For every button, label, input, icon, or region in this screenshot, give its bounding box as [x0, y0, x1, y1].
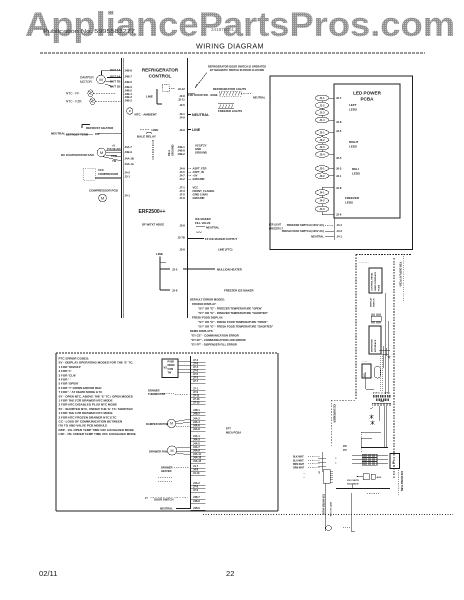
user interface board U3 — [369, 268, 382, 293]
svg-text:BY MAGNETIC SWITCH IN DOOR CLO: BY MAGNETIC SWITCH IN DOOR CLOSURE — [210, 68, 265, 72]
svg-text:DRAWER FAN: DRAWER FAN — [149, 450, 167, 454]
svg-text:J4-2: J4-2 — [319, 199, 325, 203]
svg-text:J7-1: J7-1 — [179, 186, 185, 190]
svg-text:COM: COM — [168, 368, 174, 371]
svg-text:TW: TW — [168, 372, 172, 375]
svg-text:—: — — [303, 474, 306, 476]
svg-text:22: 22 — [226, 569, 234, 578]
svg-text:DE A: DE A — [167, 150, 171, 156]
svg-text:DEFROST HEATER: DEFROST HEATER — [86, 126, 114, 130]
svg-text:FFT: FFT — [226, 427, 231, 431]
svg-text:J3-1: J3-1 — [336, 174, 342, 178]
svg-text:J4-9: J4-9 — [179, 167, 185, 171]
right terminal box — [390, 454, 400, 469]
svg-text:FROZEN DISPLAY:: FROZEN DISPLAY: — [192, 302, 217, 306]
svg-text:FRESH FOOD SWITCH (120V AC): FRESH FOOD SWITCH (120V AC) — [282, 229, 324, 233]
svg-text:J4-1: J4-1 — [319, 191, 325, 195]
svg-text:VCC: VCC — [193, 186, 199, 190]
dc evaporator fan M2 — [61, 148, 122, 161]
svg-text:NEUTRAL: NEUTRAL — [253, 96, 266, 100]
svg-text:DF W/TXT HDGE: DF W/TXT HDGE — [142, 223, 164, 227]
svg-text:"EY CE" - COMMUNICATION ERROR: "EY CE" - COMMUNICATION ERROR — [191, 334, 239, 338]
bottom pins group7 — [191, 465, 206, 475]
svg-text:J4B-8: J4B-8 — [193, 500, 200, 503]
svg-text:DISPLAY: DISPLAY — [370, 297, 373, 307]
display sub-box — [162, 359, 191, 378]
relay dashed wire — [152, 140, 154, 160]
control right pins mid1 — [177, 145, 185, 156]
svg-text:+5: +5 — [112, 143, 116, 147]
svg-text:J2-2: J2-2 — [319, 138, 325, 142]
wire elbow from dispenser — [366, 372, 374, 389]
svg-text:ICE DISPENSER: ICE DISPENSER — [333, 404, 336, 423]
vcc compressor box — [83, 168, 122, 180]
bus bottom — [361, 438, 388, 448]
svg-text:DRAWER: DRAWER — [148, 389, 160, 393]
svg-text:NTC - FF: NTC - FF — [66, 91, 79, 95]
svg-text:REFRIGERATOR DOOR SWITCH IS OP: REFRIGERATOR DOOR SWITCH IS OPERATED — [208, 65, 266, 69]
svg-text:TB: TB — [393, 461, 395, 464]
defrost heater R1 — [82, 125, 114, 130]
svg-text:NTC - FZR: NTC - FZR — [66, 99, 82, 103]
wires down from valve — [385, 293, 389, 394]
svg-text:ERF2500++: ERF2500++ — [139, 209, 166, 215]
dispenser dashed rail left — [355, 255, 357, 401]
svg-text:MODE: MODE — [168, 364, 176, 367]
ambient thermistor RT3 — [127, 108, 157, 117]
net NEUTRAL bottom — [160, 507, 206, 511]
bus line — [336, 484, 390, 489]
svg-text:241876001: 241876001 — [211, 27, 234, 32]
svg-text:REFRIGERATOR: REFRIGERATOR — [142, 68, 179, 73]
door switch S2 — [145, 496, 206, 503]
svg-text:J1-1: J1-1 — [319, 96, 325, 100]
svg-text:J4-1: J4-1 — [125, 193, 131, 197]
svg-text:OUT 5A: OUT 5A — [110, 74, 122, 78]
svg-text:J4B-9: J4B-9 — [125, 85, 133, 89]
svg-text:CONTROL PANEL: CONTROL PANEL — [371, 272, 374, 291]
svg-text:- - - -: - - - - — [362, 361, 367, 364]
svg-text:LINE: LINE — [152, 128, 159, 132]
deli leds group label — [352, 167, 360, 176]
svg-text:USER INTERFACE: USER INTERFACE — [374, 271, 377, 291]
svg-text:COMPRESSOR PCB: COMPRESSOR PCB — [89, 189, 119, 193]
svg-text:GROUND: GROUND — [195, 151, 207, 155]
footer date 02/11 — [39, 569, 57, 578]
right tube label — [400, 471, 403, 492]
svg-text:J4-7: J4-7 — [179, 174, 185, 178]
svg-text:+5V: +5V — [193, 174, 198, 178]
svg-text:J3-8: J3-8 — [179, 248, 185, 252]
bottom pins group3 — [191, 409, 206, 416]
dispenser board U4 — [369, 326, 381, 354]
svg-text:=: = — [335, 462, 337, 465]
solenoid water valve K2 — [362, 364, 381, 378]
svg-text:LSP - 15L UNDER TEMP TIME OFF: LSP - 15L UNDER TEMP TIME OFF EXCEEDED M… — [59, 432, 136, 436]
dispenser ground cluster — [379, 346, 391, 368]
fzr display pcba label — [399, 262, 403, 287]
svg-text:DELI: DELI — [352, 167, 359, 171]
dispenser dashed top — [356, 254, 412, 256]
svg-text:LEFT: LEFT — [349, 103, 357, 107]
svg-text:J4-10: J4-10 — [193, 472, 200, 475]
freezer leds group label — [345, 196, 360, 205]
svg-text:J4-3: J4-3 — [319, 207, 325, 211]
svg-text:J2-8: J2-8 — [336, 120, 342, 124]
svg-text:M: M — [99, 77, 102, 82]
svg-text:NTC - AMBIENT: NTC - AMBIENT — [135, 112, 158, 116]
display connector block dark — [373, 395, 391, 401]
wire elbow mid — [361, 432, 381, 452]
wire neutral to box — [188, 94, 266, 100]
wire fz icemaker output — [188, 237, 238, 241]
svg-text:SWITCH: SWITCH — [374, 298, 376, 307]
valve label 2 — [329, 502, 331, 517]
svg-text:J3-2: J3-2 — [319, 174, 325, 178]
dispenser dashed rail right2 — [403, 256, 405, 302]
watermark AppliancePartsPros.com — [25, 6, 455, 44]
svg-text:FREEZER: FREEZER — [345, 196, 360, 200]
freezer switch rows — [282, 223, 343, 239]
svg-text:=: = — [335, 457, 337, 460]
svg-text:J4B-2: J4B-2 — [125, 98, 133, 102]
svg-text:FZ ICE MAKER OUTPUT: FZ ICE MAKER OUTPUT — [205, 237, 237, 241]
svg-text:CONTROL: CONTROL — [149, 74, 172, 79]
svg-text:GROUND: GROUND — [171, 144, 175, 156]
svg-text:FRESH FOOD DISPLAY:: FRESH FOOD DISPLAY: — [192, 316, 223, 320]
thermistor NTC-FF — [66, 90, 115, 97]
fzr water rail — [325, 483, 327, 531]
right leds group label — [349, 140, 359, 149]
svg-text:DAMPER MOTOR: DAMPER MOTOR — [146, 422, 168, 426]
footer page 22 — [226, 569, 234, 578]
svg-text:DOOR SWITCH: DOOR SWITCH — [154, 498, 173, 502]
svg-text:COMPRESSOR: COMPRESSOR — [98, 172, 118, 176]
ice dispenser label — [333, 404, 336, 423]
svg-text:J4-3: J4-3 — [337, 229, 343, 233]
control right pins mid2 — [179, 167, 185, 182]
svg-text:AppliancePartsPros.com: AppliancePartsPros.com — [25, 6, 455, 44]
svg-text:J6-7: J6-7 — [336, 96, 342, 100]
right labels aspt group — [188, 167, 207, 182]
bottom pin rail — [190, 356, 192, 509]
svg-text:GRID 2 WAY: GRID 2 WAY — [193, 193, 209, 197]
dash seg mid — [367, 492, 379, 494]
svg-text:J7-9: J7-9 — [193, 489, 199, 492]
junction rail — [318, 452, 337, 472]
svg-text:LINE: LINE — [146, 94, 153, 98]
svg-text:MOTOR: MOTOR — [80, 80, 93, 84]
svg-text:J5-8: J5-8 — [179, 224, 185, 228]
thermistor NTC-FZR — [66, 98, 122, 105]
damper motor M1 — [80, 71, 122, 87]
svg-text:FILL VALVE: FILL VALVE — [195, 221, 211, 225]
svg-text:J4A-1B: J4A-1B — [125, 157, 134, 161]
rotated label DE A — [167, 144, 175, 156]
svg-text:NEUTRAL: NEUTRAL — [192, 113, 210, 117]
svg-text:J7-8: J7-8 — [179, 196, 185, 200]
svg-text:02/11: 02/11 — [39, 569, 57, 578]
svg-text:J3-1: J3-1 — [179, 112, 185, 116]
svg-text:J2-12: J2-12 — [178, 87, 185, 91]
fan pin labels — [107, 143, 121, 163]
svg-text:M: M — [100, 150, 103, 155]
svg-text:FZR WATER TUBE: FZR WATER TUBE — [400, 471, 403, 492]
svg-text:J2-8: J2-8 — [336, 186, 342, 190]
svg-text:DRAWER: DRAWER — [161, 466, 173, 470]
svg-text:HEATER: HEATER — [161, 469, 172, 473]
svg-text:J2-5: J2-5 — [172, 267, 178, 271]
line bracket lower — [156, 252, 170, 290]
title WIRING DIAGRAM — [196, 42, 264, 51]
svg-text:2?: 2? — [145, 497, 148, 500]
svg-text:J7-5: J7-5 — [179, 193, 185, 197]
control left pin J4-1 — [125, 193, 131, 197]
svg-text:J4B-8: J4B-8 — [125, 69, 133, 73]
connector header J5 — [372, 400, 391, 406]
svg-text:J2-6: J2-6 — [336, 213, 342, 217]
ice dispenser dashed elbow — [331, 400, 356, 446]
fzr door switch S1 — [188, 93, 218, 97]
svg-text:OUT 7B: OUT 7B — [110, 79, 121, 83]
svg-text:J4-4: J4-4 — [337, 223, 343, 227]
dispenser dashed rail right — [393, 258, 395, 478]
svg-text:LINE: LINE — [156, 252, 163, 256]
svg-text:J3-1: J3-1 — [319, 167, 325, 171]
tiny tee symbols — [303, 474, 306, 480]
svg-text:AUG: AUG — [377, 476, 382, 479]
svg-text:LINE: LINE — [192, 128, 201, 132]
svg-text:"SY" OR "E" - FRESH FOOD TEMPE: "SY" OR "E" - FRESH FOOD TEMPERATURE "SH… — [198, 325, 274, 329]
right labels vcc2 group — [193, 186, 215, 201]
outer box corner labels — [269, 225, 284, 231]
left leds group label — [349, 103, 357, 112]
error code notes — [188, 298, 274, 347]
connector dot row — [373, 391, 389, 394]
connector J1 ovals — [315, 95, 334, 123]
svg-text:J4A-7: J4A-7 — [125, 145, 133, 149]
svg-text:M: M — [101, 195, 104, 200]
main relay K1 — [137, 132, 156, 138]
svg-text:J4A-15: J4A-15 — [193, 460, 202, 463]
wire color rows — [293, 457, 320, 470]
svg-text:NEUTRAL: NEUTRAL — [206, 226, 220, 230]
svg-text:BALE RELAY: BALE RELAY — [137, 135, 156, 139]
drawer heater R3 — [158, 466, 189, 482]
publication number text — [43, 29, 135, 35]
bottom pins group2 — [191, 388, 206, 405]
svg-text:J4-1: J4-1 — [337, 235, 343, 239]
svg-text:J4: J4 — [318, 471, 321, 474]
svg-text:252: 252 — [343, 446, 348, 448]
svg-text:J1-3: J1-3 — [319, 111, 325, 115]
net NEUTRAL left — [51, 131, 122, 136]
connector J2 ovals — [315, 130, 334, 158]
svg-text:J2-6: J2-6 — [172, 288, 178, 292]
control panel tiny label — [359, 261, 369, 264]
svg-text:- - - - - - -: - - - - - - - — [359, 261, 369, 264]
note refrigerator door switch — [195, 65, 266, 89]
control right pins J7 — [179, 186, 185, 201]
compressor PCB M3 — [89, 189, 119, 202]
wire dashed pair — [380, 356, 382, 391]
bottom pins group5 — [191, 435, 206, 442]
connector block small — [318, 470, 334, 484]
control right pins top — [178, 87, 185, 132]
svg-text:J3-5: J3-5 — [336, 129, 342, 133]
drawer fan M5 — [149, 446, 191, 455]
slash mark — [370, 408, 373, 410]
bottom pins group8 — [191, 482, 206, 492]
refrigerator control board right rail — [187, 58, 189, 318]
svg-text:Publication No. 5995583277: Publication No. 5995583277 — [43, 29, 135, 35]
svg-text:M: M — [171, 449, 174, 453]
svg-text:PCBA: PCBA — [378, 284, 381, 291]
svg-text:THERMISTOR: THERMISTOR — [148, 392, 165, 396]
svg-text:J4A-3: J4A-3 — [193, 439, 200, 442]
svg-text:DEMO DISPLAYS:: DEMO DISPLAYS: — [190, 329, 214, 333]
svg-text:NEUTRAL: NEUTRAL — [311, 235, 324, 239]
svg-text:J6-2: J6-2 — [336, 167, 342, 171]
net LINE FTC — [218, 248, 233, 252]
svg-text:"SY" OR "E" - FRESH FOOD TEMPE: "SY" OR "E" - FRESH FOOD TEMPERATURE "OP… — [198, 320, 268, 324]
svg-text:NEUTRAL: NEUTRAL — [160, 507, 173, 511]
bottom oval — [325, 526, 332, 530]
svg-text:FZR DISPLAY PCBA: FZR DISPLAY PCBA — [399, 262, 403, 287]
auger junction box — [357, 474, 382, 480]
svg-text:J1-4: J1-4 — [319, 118, 325, 122]
refrigerator control board left rail — [122, 58, 124, 318]
control right pins lower — [177, 224, 185, 252]
svg-text:FZR LIGHT: FZR LIGHT — [269, 225, 282, 227]
relay bracket — [157, 85, 175, 105]
svg-text:J4-2: J4-2 — [179, 177, 185, 181]
svg-text:J2-11: J2-11 — [178, 98, 185, 102]
refrigerator lights L2 — [213, 87, 252, 96]
svg-text:BRN-WHT: BRN-WHT — [293, 464, 305, 466]
wire drops long — [384, 406, 386, 446]
refrigerator control U1 label — [142, 68, 179, 79]
bottom pins group4 — [191, 418, 206, 432]
control left pins J4B group — [125, 69, 133, 103]
svg-text:FREEZER SWITCH (120V AC): FREEZER SWITCH (120V AC) — [287, 223, 324, 227]
svg-text:PCBA: PCBA — [360, 97, 374, 102]
svg-text:VCC/FZY: VCC/FZY — [195, 144, 207, 148]
freezer ice maker — [172, 288, 254, 292]
svg-text:J4B: J4B — [380, 400, 384, 403]
svg-text:257: 257 — [343, 450, 348, 452]
title rule — [40, 52, 425, 54]
svg-text:FREEZER ICE MAKER: FREEZER ICE MAKER — [224, 288, 254, 292]
svg-text:J4A-1A: J4A-1A — [125, 162, 134, 166]
svg-text:MICA PCBA: MICA PCBA — [226, 431, 241, 435]
svg-text:DC EVAPORATOR FAN: DC EVAPORATOR FAN — [61, 153, 94, 157]
connector J4 ovals — [315, 187, 334, 215]
svg-text:J3-1: J3-1 — [125, 174, 131, 178]
svg-text:J4B-9: J4B-9 — [125, 150, 133, 154]
svg-text:J4B-8: J4B-8 — [177, 149, 185, 153]
svg-text:LEDS: LEDS — [352, 172, 360, 176]
svg-text:J4-9: J4-9 — [179, 116, 185, 120]
right dashed drop — [397, 470, 399, 495]
bottom dashes — [343, 527, 350, 529]
dispenser dashes label — [362, 361, 367, 364]
svg-text:SOLENOID: SOLENOID — [347, 484, 359, 486]
svg-text:J1-2: J1-2 — [319, 103, 325, 107]
svg-text:—: — — [303, 477, 306, 479]
control label DF W/TXT HDGE — [142, 223, 164, 227]
svg-text:ICE CHUTE: ICE CHUTE — [347, 480, 359, 482]
svg-text:BLK-WHT: BLK-WHT — [293, 457, 304, 459]
chute labels — [347, 480, 359, 486]
svg-text:FREEZER LIGHTS: FREEZER LIGHTS — [218, 109, 242, 113]
svg-text:"SY" OR "E" - FREEZER TEMPERAT: "SY" OR "E" - FREEZER TEMPERATURE "SHORT… — [198, 311, 269, 315]
led box pin labels — [336, 96, 342, 217]
svg-text:PUSH: PUSH — [168, 360, 175, 363]
led outer enclosure box — [270, 76, 413, 250]
svg-text:BLU-WHT: BLU-WHT — [293, 460, 304, 462]
led power PCBA U2 — [334, 84, 400, 218]
part number text — [211, 27, 234, 32]
drawer thermistor RT4 — [148, 389, 188, 397]
svg-text:J5-7B: J5-7B — [177, 236, 184, 240]
control label ERF2500++ — [139, 209, 166, 215]
svg-text:FZR WATER VALVE: FZR WATER VALVE — [322, 494, 325, 516]
svg-text:ASPT_FZR: ASPT_FZR — [193, 167, 207, 171]
net NEUTRAL — [188, 113, 210, 117]
control left pins J4A group — [125, 145, 134, 166]
svg-text:J2-8: J2-8 — [179, 94, 185, 98]
svg-text:J3B-2: J3B-2 — [177, 152, 185, 156]
svg-text:"EY FF" - DISPENSER FILL ERROR: "EY FF" - DISPENSER FILL ERROR — [191, 343, 237, 347]
svg-text:MULLION HEATER: MULLION HEATER — [217, 267, 242, 271]
control left pins J4-2 J3-1 — [125, 171, 131, 179]
damper motor M4 — [146, 419, 191, 428]
right labels vcc group — [195, 144, 207, 155]
svg-text:PULSE+DC: PULSE+DC — [107, 147, 121, 151]
svg-text:GROUND: GROUND — [193, 196, 205, 200]
svg-text:DISPENSER: DISPENSER — [372, 339, 374, 352]
svg-text:"SY" OR "E" - FREEZER TEMPERAT: "SY" OR "E" - FREEZER TEMPERATURE "OPEN" — [198, 307, 263, 311]
svg-text:OUT 1B: OUT 1B — [110, 84, 121, 88]
wire line lbl — [140, 128, 158, 132]
led rail below box — [333, 218, 335, 240]
svg-text:COM: COM — [111, 154, 117, 158]
svg-text:LED POWER: LED POWER — [353, 91, 382, 96]
water line drop — [351, 493, 355, 531]
svg-text:GROUND: GROUND — [193, 177, 205, 181]
svg-text:LEDS: LEDS — [349, 108, 357, 112]
svg-text:J4B-9: J4B-9 — [193, 507, 200, 510]
svg-text:WTR VLV SOL: WTR VLV SOL — [329, 502, 331, 517]
door sw tiny labels — [343, 446, 348, 452]
svg-text:NEUTRAL: NEUTRAL — [51, 131, 65, 135]
connector header block — [371, 314, 381, 324]
thermal fuse marks — [370, 415, 375, 426]
fzr water valve label — [322, 494, 325, 516]
node LINE label top — [146, 94, 153, 98]
wire drop short — [379, 406, 381, 421]
svg-text:WIRING DIAGRAM: WIRING DIAGRAM — [196, 42, 264, 51]
connector J3 ovals — [315, 166, 334, 179]
svg-text:J4B-7: J4B-7 — [125, 75, 133, 79]
mullion heater R2 — [172, 267, 242, 271]
net LINE — [188, 128, 201, 132]
svg-text:FRONT_FLANGE: FRONT_FLANGE — [193, 189, 215, 193]
svg-text:J2-5: J2-5 — [179, 103, 185, 107]
svg-text:DEFAULT ERROR MODES:: DEFAULT ERROR MODES: — [190, 298, 225, 302]
water tube heater rows — [352, 454, 388, 465]
